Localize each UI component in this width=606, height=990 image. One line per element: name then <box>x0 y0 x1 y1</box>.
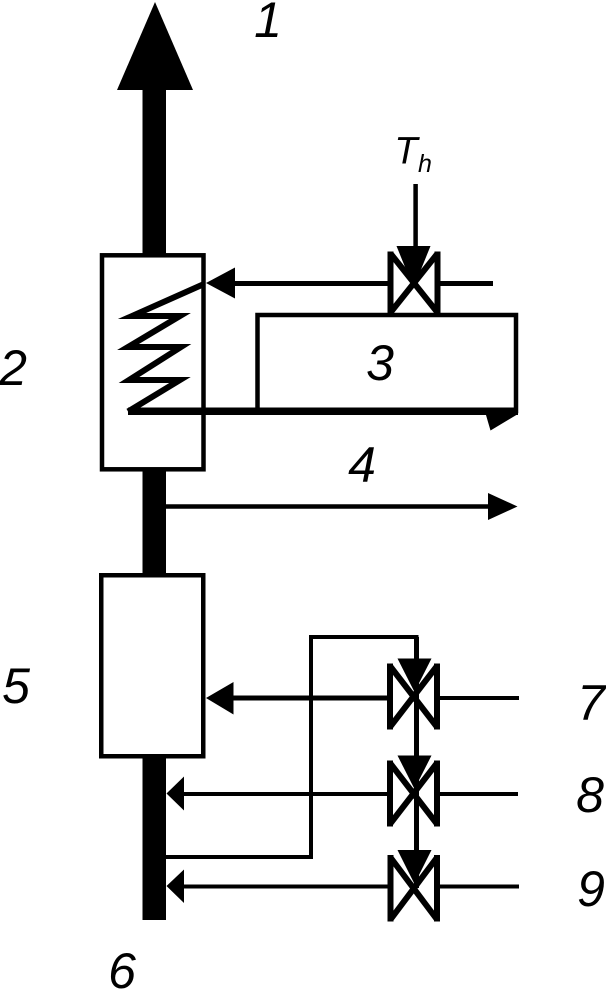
wire from valve 9 to trunk <box>183 885 390 889</box>
wire right of valve 8 <box>438 792 518 796</box>
thick flue line under box 3 <box>128 411 518 430</box>
svg-text:7: 7 <box>577 675 606 731</box>
svg-text:3: 3 <box>366 335 394 391</box>
valve 8 <box>390 756 437 827</box>
arrow into trunk (line 9) <box>167 870 185 904</box>
wire from Th down to valve <box>413 184 418 252</box>
wire right of valve Th <box>438 281 493 286</box>
vertical feed wire through valves <box>414 637 419 888</box>
trunk below vessel 5 <box>143 756 167 920</box>
wire from valve 8 to trunk <box>183 792 390 796</box>
box 3 <box>258 315 517 411</box>
wire from valve 7 to vessel 5 <box>232 696 390 701</box>
svg-text:9: 9 <box>577 861 605 917</box>
flue gas outlet arrow 1 (thick up arrow) <box>117 2 193 256</box>
svg-text:5: 5 <box>2 658 30 714</box>
svg-text:h: h <box>418 150 432 178</box>
svg-text:4: 4 <box>348 437 376 493</box>
arrow into vessel 5 <box>206 682 234 715</box>
svg-text:1: 1 <box>254 0 282 48</box>
wire right of valve 9 <box>438 885 519 889</box>
trunk between vessel 2 and vessel 5 <box>143 469 167 576</box>
arrow into trunk (line 8) <box>167 777 185 811</box>
wire from valve Th to vessel 2 <box>233 281 390 286</box>
vessel 2 (heater box) <box>102 255 204 469</box>
valve 9 <box>391 850 438 922</box>
svg-text:6: 6 <box>108 943 136 990</box>
branch wire from trunk up to valves feed <box>164 637 419 859</box>
wire 4 (arrow right) <box>166 493 518 520</box>
valve 7 <box>390 659 437 730</box>
svg-text:2: 2 <box>0 340 27 396</box>
wire right of valve 7 <box>438 696 519 700</box>
heater coil in vessel 2 <box>128 284 204 412</box>
arrow into vessel 2 <box>206 268 235 299</box>
vessel 5 <box>101 575 203 756</box>
svg-text:T: T <box>394 131 420 173</box>
label Th <box>394 131 432 179</box>
svg-text:8: 8 <box>576 767 604 823</box>
valve Th <box>391 246 438 315</box>
